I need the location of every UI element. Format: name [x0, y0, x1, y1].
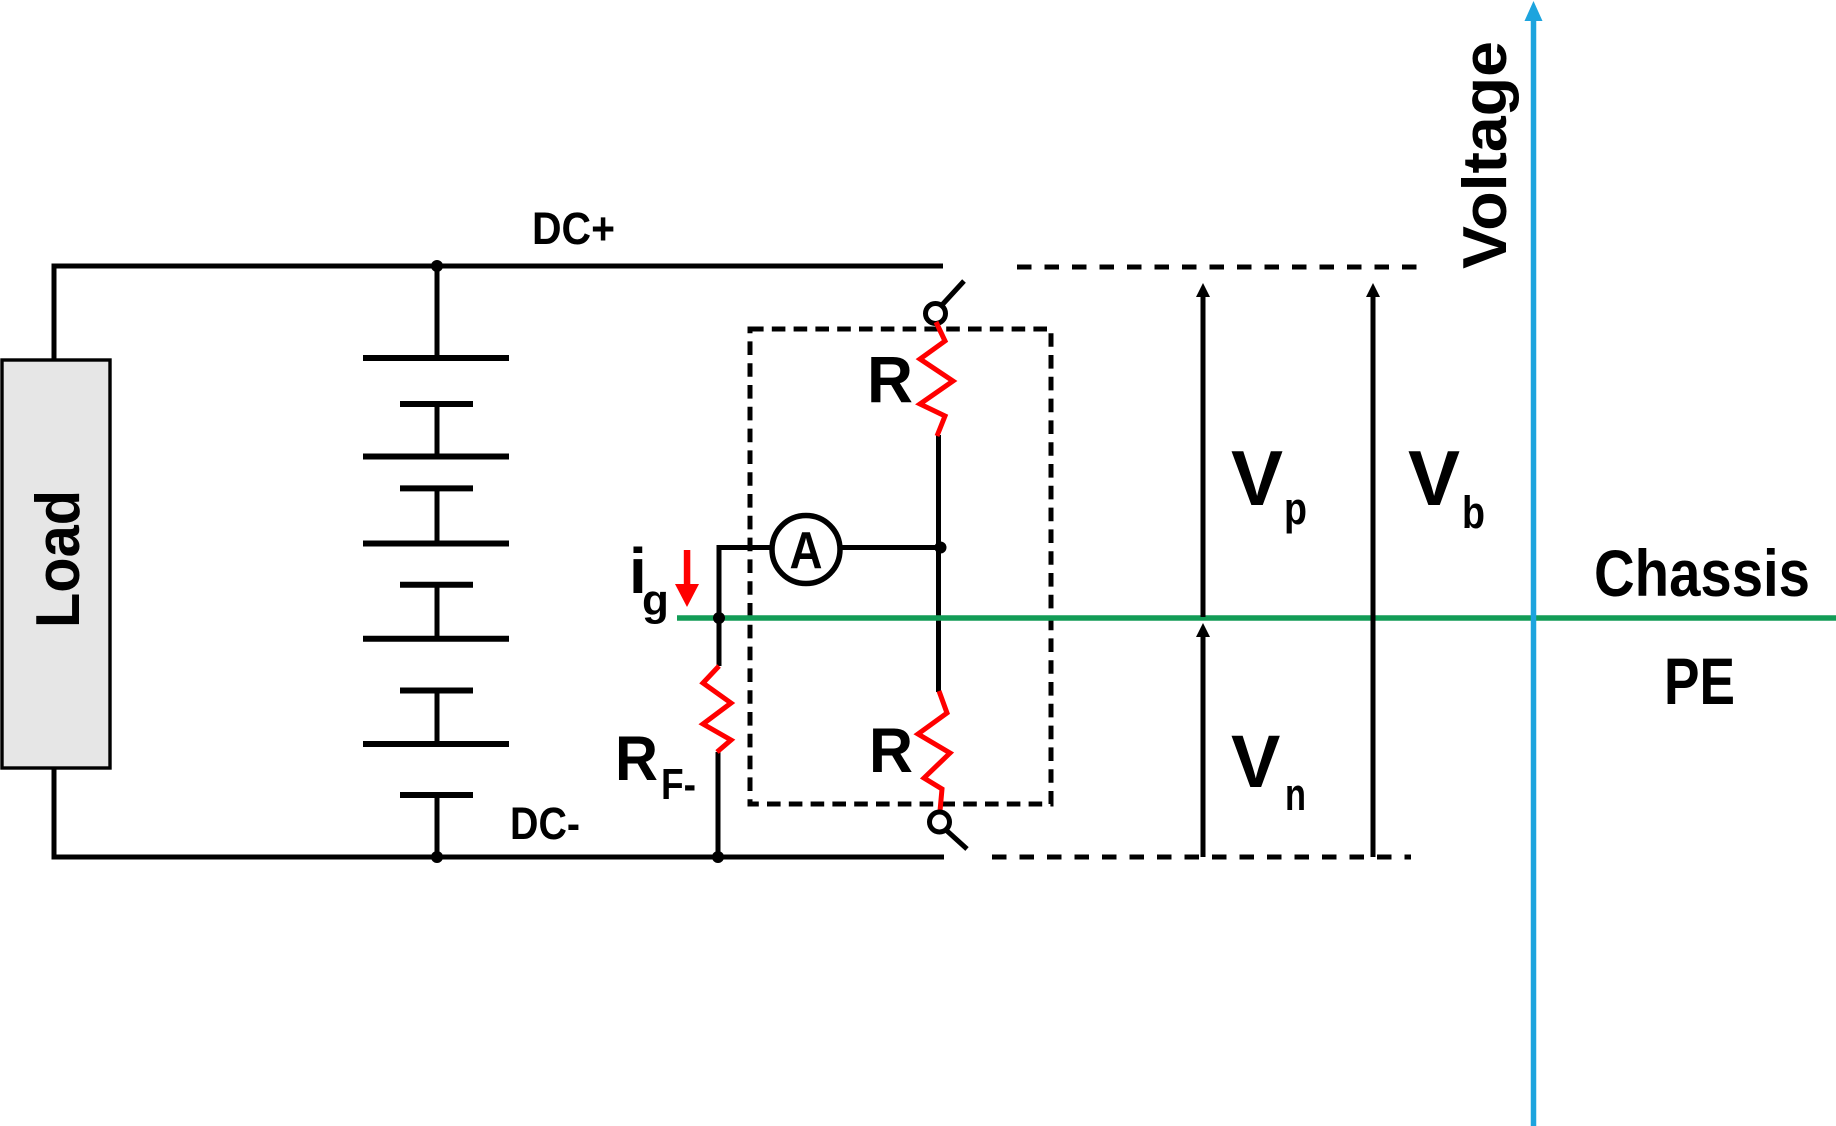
- IMD dashed box: [750, 329, 1051, 804]
- svg-text:DC+: DC+: [532, 203, 615, 254]
- battery B3 plates: [363, 541, 509, 547]
- svg-text:Chassis: Chassis: [1594, 536, 1810, 610]
- svg-text:R: R: [867, 342, 913, 416]
- svg-text:b: b: [1462, 487, 1485, 538]
- arrow Vn: [1196, 623, 1210, 857]
- resistor R bottom: [918, 691, 950, 811]
- wire battery stem 2: [435, 404, 440, 457]
- resistor R top: [920, 322, 953, 436]
- arrow Vp: [1196, 283, 1210, 617]
- wire battery stem 3: [435, 488, 440, 543]
- wire divider mid vertical: [936, 435, 941, 692]
- resistor RF-: [703, 666, 731, 752]
- wire ammeter right: [840, 545, 941, 550]
- wire battery stem 4: [435, 585, 440, 639]
- svg-text:R: R: [615, 724, 658, 794]
- battery B1 plates: [363, 355, 509, 361]
- svg-text:F-: F-: [661, 760, 696, 809]
- node chassis junction: [713, 612, 725, 624]
- battery B2 plates: [363, 454, 509, 460]
- voltage axis: [1525, 1, 1543, 1126]
- wire RF- lower: [716, 752, 721, 857]
- wire dashed top potential line: [1017, 265, 1427, 270]
- switch S2: [930, 812, 968, 849]
- node DC+ junction: [431, 260, 443, 272]
- svg-text:A: A: [790, 522, 823, 580]
- svg-text:R: R: [869, 716, 913, 786]
- svg-text:Load: Load: [24, 490, 93, 628]
- node ammeter-R junction: [935, 542, 947, 554]
- arrow ig current: [675, 550, 699, 607]
- svg-text:V: V: [1231, 720, 1280, 803]
- node DC- battery junction: [431, 851, 443, 863]
- wire battery stem 5: [435, 691, 440, 745]
- svg-text:V: V: [1231, 434, 1283, 522]
- wire DC- bus: [52, 855, 945, 860]
- wire battery stem top: [435, 266, 440, 358]
- ammeter U1: [772, 516, 840, 584]
- load box: [2, 360, 110, 768]
- battery B5 plates: [363, 741, 509, 747]
- svg-text:V: V: [1408, 434, 1460, 522]
- svg-text:DC-: DC-: [510, 798, 580, 849]
- wire battery stem bottom: [435, 795, 440, 857]
- svg-text:n: n: [1285, 769, 1306, 820]
- wire dashed bottom potential line: [992, 855, 1411, 860]
- wire load left top: [52, 264, 57, 363]
- switch S1: [926, 281, 965, 324]
- svg-text:PE: PE: [1664, 644, 1735, 718]
- svg-text:g: g: [642, 576, 669, 625]
- arrow Vb: [1366, 283, 1380, 857]
- wire DC+ bus: [54, 264, 943, 269]
- wire load left bottom: [52, 766, 57, 860]
- chassis PE line: [677, 615, 1836, 621]
- wire ammeter left: [719, 548, 774, 667]
- battery B4 plates: [363, 636, 509, 642]
- svg-text:Voltage: Voltage: [1451, 41, 1520, 269]
- node DC- RF junction: [712, 851, 724, 863]
- svg-text:p: p: [1284, 483, 1307, 534]
